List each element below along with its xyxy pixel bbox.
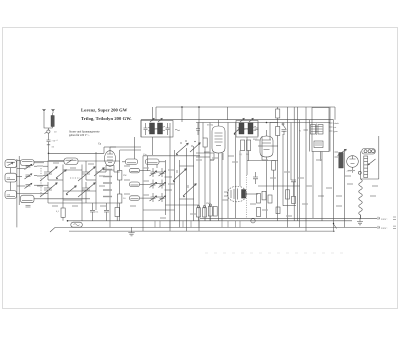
node <box>181 106 183 108</box>
wire <box>198 217 200 221</box>
switch S1 <box>45 128 51 134</box>
wire <box>344 149 346 227</box>
wire <box>329 107 331 152</box>
frame <box>361 136 379 179</box>
wire row <box>34 165 48 167</box>
node <box>198 106 200 108</box>
wire <box>186 148 188 231</box>
wire <box>81 165 83 221</box>
wire <box>142 156 144 231</box>
wire <box>209 123 211 221</box>
switch S10 <box>66 186 76 194</box>
capacitor C2 <box>47 145 50 153</box>
switch S6 <box>234 128 240 134</box>
node antenna junction <box>48 153 50 155</box>
label value <box>204 151 210 153</box>
wire <box>10 168 12 174</box>
svg-text:220V~: 220V~ <box>381 218 388 221</box>
wire <box>239 151 241 187</box>
wire <box>360 215 362 218</box>
label value <box>250 203 256 205</box>
wire <box>277 136 279 221</box>
wire <box>320 152 322 162</box>
wire <box>49 160 65 162</box>
capacitor C17 <box>144 123 148 135</box>
label value <box>262 209 268 211</box>
wire <box>293 107 295 221</box>
coil L12 <box>130 196 140 201</box>
wire row <box>63 199 82 201</box>
wire row <box>63 190 96 192</box>
wire <box>297 107 299 221</box>
switch S9 <box>56 170 66 178</box>
coil L9 <box>146 159 160 165</box>
svg-text:×10⁻⁴: ×10⁻⁴ <box>52 140 58 143</box>
wire <box>119 203 121 221</box>
wire <box>140 120 142 137</box>
trimmer C4 <box>25 174 32 179</box>
label value <box>103 176 112 178</box>
svg-text:rot: rot <box>334 126 337 129</box>
wire row <box>140 183 151 185</box>
wire <box>109 172 111 227</box>
resistor R11 <box>203 208 207 217</box>
wire row <box>180 165 194 167</box>
wire row <box>86 179 96 181</box>
label value <box>370 195 376 197</box>
wire <box>269 122 271 140</box>
coil L8 <box>126 159 138 165</box>
svg-text:N: N <box>299 130 301 133</box>
antenna A2 <box>52 109 55 113</box>
arrow <box>158 118 162 122</box>
coil L10 <box>130 168 140 173</box>
trimmer C12 <box>150 182 157 187</box>
arrow <box>150 118 154 122</box>
coil L5 <box>21 160 35 166</box>
wire <box>239 221 241 228</box>
wire <box>179 160 181 227</box>
node <box>266 122 268 124</box>
wire <box>312 152 314 219</box>
label value <box>103 189 112 191</box>
resistor R16 <box>268 195 272 203</box>
trimmer C15 <box>159 182 166 187</box>
resistor R9 <box>276 127 280 136</box>
choke L13 <box>339 153 344 169</box>
wire <box>116 203 118 208</box>
wire row <box>165 176 173 178</box>
arrow <box>240 118 244 122</box>
label value <box>255 139 261 141</box>
wire <box>227 221 229 228</box>
wire <box>204 147 206 221</box>
wire <box>120 149 141 151</box>
capacitor C18 <box>166 123 170 135</box>
wire <box>182 221 184 228</box>
tube V4 <box>227 186 247 202</box>
IF transformer T1 <box>141 121 173 138</box>
label value <box>124 193 130 195</box>
label value <box>298 177 304 179</box>
capacitor C25 <box>104 203 109 221</box>
label value <box>326 187 332 189</box>
resistor R22 <box>257 208 261 217</box>
wire antenna left <box>44 113 53 128</box>
wire <box>96 171 106 173</box>
wire row <box>34 162 44 164</box>
coil L14 <box>314 141 323 148</box>
wire bus2 <box>68 220 353 222</box>
wire <box>202 123 204 139</box>
label value <box>70 167 76 169</box>
label value <box>103 196 112 198</box>
capacitor C1 <box>47 133 51 147</box>
resistor R10 <box>197 208 201 217</box>
label value <box>212 157 218 159</box>
wire <box>198 221 200 228</box>
wire <box>169 221 171 228</box>
capacitor C22 <box>253 172 258 184</box>
wire row <box>196 156 210 158</box>
wire <box>221 153 223 221</box>
trimmer C14 <box>159 171 166 176</box>
contact S7 <box>282 123 284 125</box>
output transformer T3 <box>312 108 329 152</box>
label value <box>143 167 149 169</box>
coil L11 <box>130 182 140 187</box>
wire <box>95 152 97 210</box>
node <box>67 220 69 222</box>
wire <box>26 166 28 168</box>
wire <box>143 155 200 157</box>
coil L2 <box>5 160 17 168</box>
wire <box>305 107 307 231</box>
label value <box>103 169 112 171</box>
label <box>335 151 339 153</box>
resistor R6 <box>241 140 245 151</box>
label value <box>270 177 276 179</box>
switch S8 <box>334 224 337 229</box>
wire <box>246 137 248 175</box>
wire row <box>196 152 214 154</box>
wire bus3 <box>55 226 374 228</box>
wire <box>277 107 279 109</box>
coil L7 <box>64 158 78 165</box>
wire <box>235 221 237 228</box>
mech link dashed <box>40 168 42 196</box>
wire row <box>180 198 194 200</box>
label value <box>160 217 166 219</box>
label tilde <box>175 129 180 131</box>
plug P2 <box>374 226 380 229</box>
label value <box>306 185 312 187</box>
label value <box>143 180 149 182</box>
wire bus4 <box>69 230 335 232</box>
resistor R14 <box>257 194 261 204</box>
label value <box>130 205 136 207</box>
label value <box>124 179 130 181</box>
resistor R12 <box>208 207 212 217</box>
wire row <box>17 185 25 187</box>
wire <box>119 161 121 171</box>
resistor R4 <box>115 208 119 217</box>
wire <box>103 147 105 153</box>
wire row <box>48 179 63 181</box>
wire <box>16 159 18 227</box>
label value <box>99 185 105 187</box>
trimmer C5 <box>25 183 32 188</box>
wire <box>152 107 154 121</box>
tone box Ts <box>71 222 83 227</box>
wire row <box>122 161 126 163</box>
switch S3 <box>183 184 196 196</box>
plug P1 <box>374 217 380 220</box>
tube V2 <box>212 126 225 153</box>
wire <box>261 136 263 160</box>
label value <box>103 182 112 184</box>
coil L3 <box>5 173 17 182</box>
trimmer C11 <box>150 171 157 176</box>
arrow <box>249 118 253 122</box>
resistor R17 <box>286 190 290 199</box>
resistor R19 <box>276 207 280 214</box>
label value <box>124 165 130 167</box>
label value <box>336 205 342 207</box>
label value <box>316 159 322 161</box>
wire <box>321 152 323 221</box>
jack J1 <box>251 219 255 223</box>
capacitor C20 <box>255 128 259 130</box>
wire row <box>334 107 336 120</box>
coil L4 <box>5 191 17 199</box>
wire <box>181 107 183 122</box>
label value <box>372 185 378 187</box>
label value <box>37 165 43 167</box>
wire <box>248 151 250 161</box>
ground <box>128 227 134 236</box>
label value <box>168 169 174 171</box>
wire row <box>34 198 90 200</box>
wire row <box>283 205 296 207</box>
ladder resistor R21 <box>364 156 368 178</box>
capacitor C19 <box>196 123 200 136</box>
wire row <box>34 161 64 163</box>
resistor R8 <box>276 109 280 118</box>
trimmer C6 <box>26 206 31 208</box>
wire row <box>34 175 48 177</box>
label value <box>222 199 228 201</box>
wire row <box>156 196 160 198</box>
label value <box>196 159 202 161</box>
capacitor C23 <box>291 180 296 182</box>
arrow tap <box>368 159 375 165</box>
label value <box>284 171 290 173</box>
node <box>358 171 361 174</box>
label value <box>347 183 353 185</box>
wire row <box>140 197 151 199</box>
wire row <box>247 160 278 162</box>
label value <box>100 205 106 207</box>
trimmer C3 <box>25 164 32 169</box>
resistor R5 <box>203 138 207 147</box>
ground <box>357 218 363 225</box>
mains cord wavy <box>359 179 363 219</box>
label value <box>52 205 58 207</box>
label value <box>53 162 59 164</box>
wire row <box>258 185 300 187</box>
wire <box>134 137 136 159</box>
wire <box>152 137 154 155</box>
label value <box>143 194 149 196</box>
label value <box>302 203 308 205</box>
label <box>348 170 355 172</box>
rectifier V5 <box>347 156 359 168</box>
label value <box>37 185 43 187</box>
tube V3 <box>260 136 273 157</box>
wire row <box>159 161 165 163</box>
wire <box>119 180 121 194</box>
wire row <box>156 183 160 185</box>
wire <box>352 167 354 173</box>
wire <box>309 120 311 152</box>
wire <box>227 107 229 120</box>
wire <box>198 107 200 231</box>
coil L1 <box>51 116 54 127</box>
wire <box>47 197 49 203</box>
svg-text:ECH4: ECH4 <box>207 124 214 127</box>
label value <box>286 215 292 217</box>
wire <box>218 163 220 221</box>
wire row <box>210 159 214 161</box>
wire <box>164 160 166 215</box>
switch S11 <box>94 168 104 176</box>
wire H1 <box>156 106 335 108</box>
wire <box>116 217 118 221</box>
label value <box>232 161 238 163</box>
antenna A1 <box>43 109 46 113</box>
switch S2 <box>173 169 186 181</box>
resistor R15 <box>262 191 266 200</box>
wire faint <box>205 252 345 254</box>
wire row <box>143 209 175 211</box>
svg-text:Trilog, Trilodyn 200 GW.: Trilog, Trilodyn 200 GW. <box>81 116 132 121</box>
wire <box>257 123 259 137</box>
wire <box>193 146 195 221</box>
capacitor C24 <box>90 203 95 221</box>
wire <box>293 182 295 197</box>
svg-text:220V~: 220V~ <box>381 227 388 230</box>
varcap C8 <box>40 182 57 197</box>
wire <box>47 161 49 167</box>
wire diag <box>50 227 55 232</box>
wire <box>270 121 278 123</box>
label value <box>336 195 342 197</box>
wire <box>18 156 20 205</box>
wire row <box>258 145 262 147</box>
svg-text:Lorenz, Super 200 GW: Lorenz, Super 200 GW <box>81 108 128 113</box>
switch S4 <box>176 143 188 154</box>
wire <box>159 221 161 228</box>
varcap C9 <box>78 166 95 181</box>
wire <box>78 160 96 162</box>
wire <box>287 107 289 227</box>
wire row <box>63 169 82 171</box>
wire <box>333 120 335 232</box>
varcap C10 <box>78 182 95 197</box>
wire <box>221 221 223 228</box>
mech link dashed <box>70 177 80 179</box>
coil L6 <box>21 195 35 203</box>
wire <box>190 221 192 228</box>
label value <box>228 155 234 157</box>
wire row <box>140 170 151 172</box>
wire <box>169 123 171 231</box>
wire <box>62 165 64 209</box>
wire row <box>48 202 117 204</box>
wire <box>227 123 229 219</box>
wire row <box>156 171 160 173</box>
label value <box>99 175 105 177</box>
wire grid cap <box>218 120 220 123</box>
wire <box>110 146 141 148</box>
wire row <box>271 145 278 147</box>
wire <box>235 123 237 219</box>
wire antenna to bus <box>48 153 50 160</box>
resistor R1 <box>61 208 65 217</box>
IF transformer T2 <box>236 121 258 138</box>
resistor R7 <box>247 140 251 151</box>
resistor R2 <box>118 171 122 181</box>
wire <box>147 156 149 171</box>
resistor R13 <box>213 207 217 217</box>
wire row <box>165 204 199 206</box>
switch S5 <box>190 143 200 152</box>
wire <box>266 157 268 219</box>
wire <box>282 134 284 206</box>
resistor R3 <box>118 194 122 203</box>
wire <box>277 118 279 127</box>
wire <box>298 120 300 228</box>
label value <box>88 163 94 165</box>
label value <box>168 183 174 185</box>
varcap C7 <box>40 166 57 181</box>
resistor R18 <box>292 196 296 203</box>
label <box>335 156 339 158</box>
wire row <box>34 184 48 186</box>
label value <box>190 213 196 215</box>
wire tube top <box>109 147 111 151</box>
capacitor C21 <box>282 130 287 136</box>
wire <box>85 161 87 166</box>
wire <box>155 107 157 121</box>
wire <box>246 193 259 195</box>
svg-text:gelten für 220 V ~.: gelten für 220 V ~. <box>69 134 90 137</box>
label value <box>37 175 43 177</box>
wire dashed <box>245 175 247 218</box>
wire H3 <box>196 122 330 124</box>
wire row <box>17 176 23 178</box>
svg-text:Strom- und Spannungswerte: Strom- und Spannungswerte <box>69 131 100 134</box>
pilot lamp box <box>362 149 376 155</box>
wire row <box>17 160 21 162</box>
label value <box>72 205 78 207</box>
tube V1 <box>105 151 116 167</box>
wire <box>156 165 158 169</box>
wire <box>266 130 268 133</box>
wire <box>119 150 121 171</box>
wire <box>209 216 211 221</box>
